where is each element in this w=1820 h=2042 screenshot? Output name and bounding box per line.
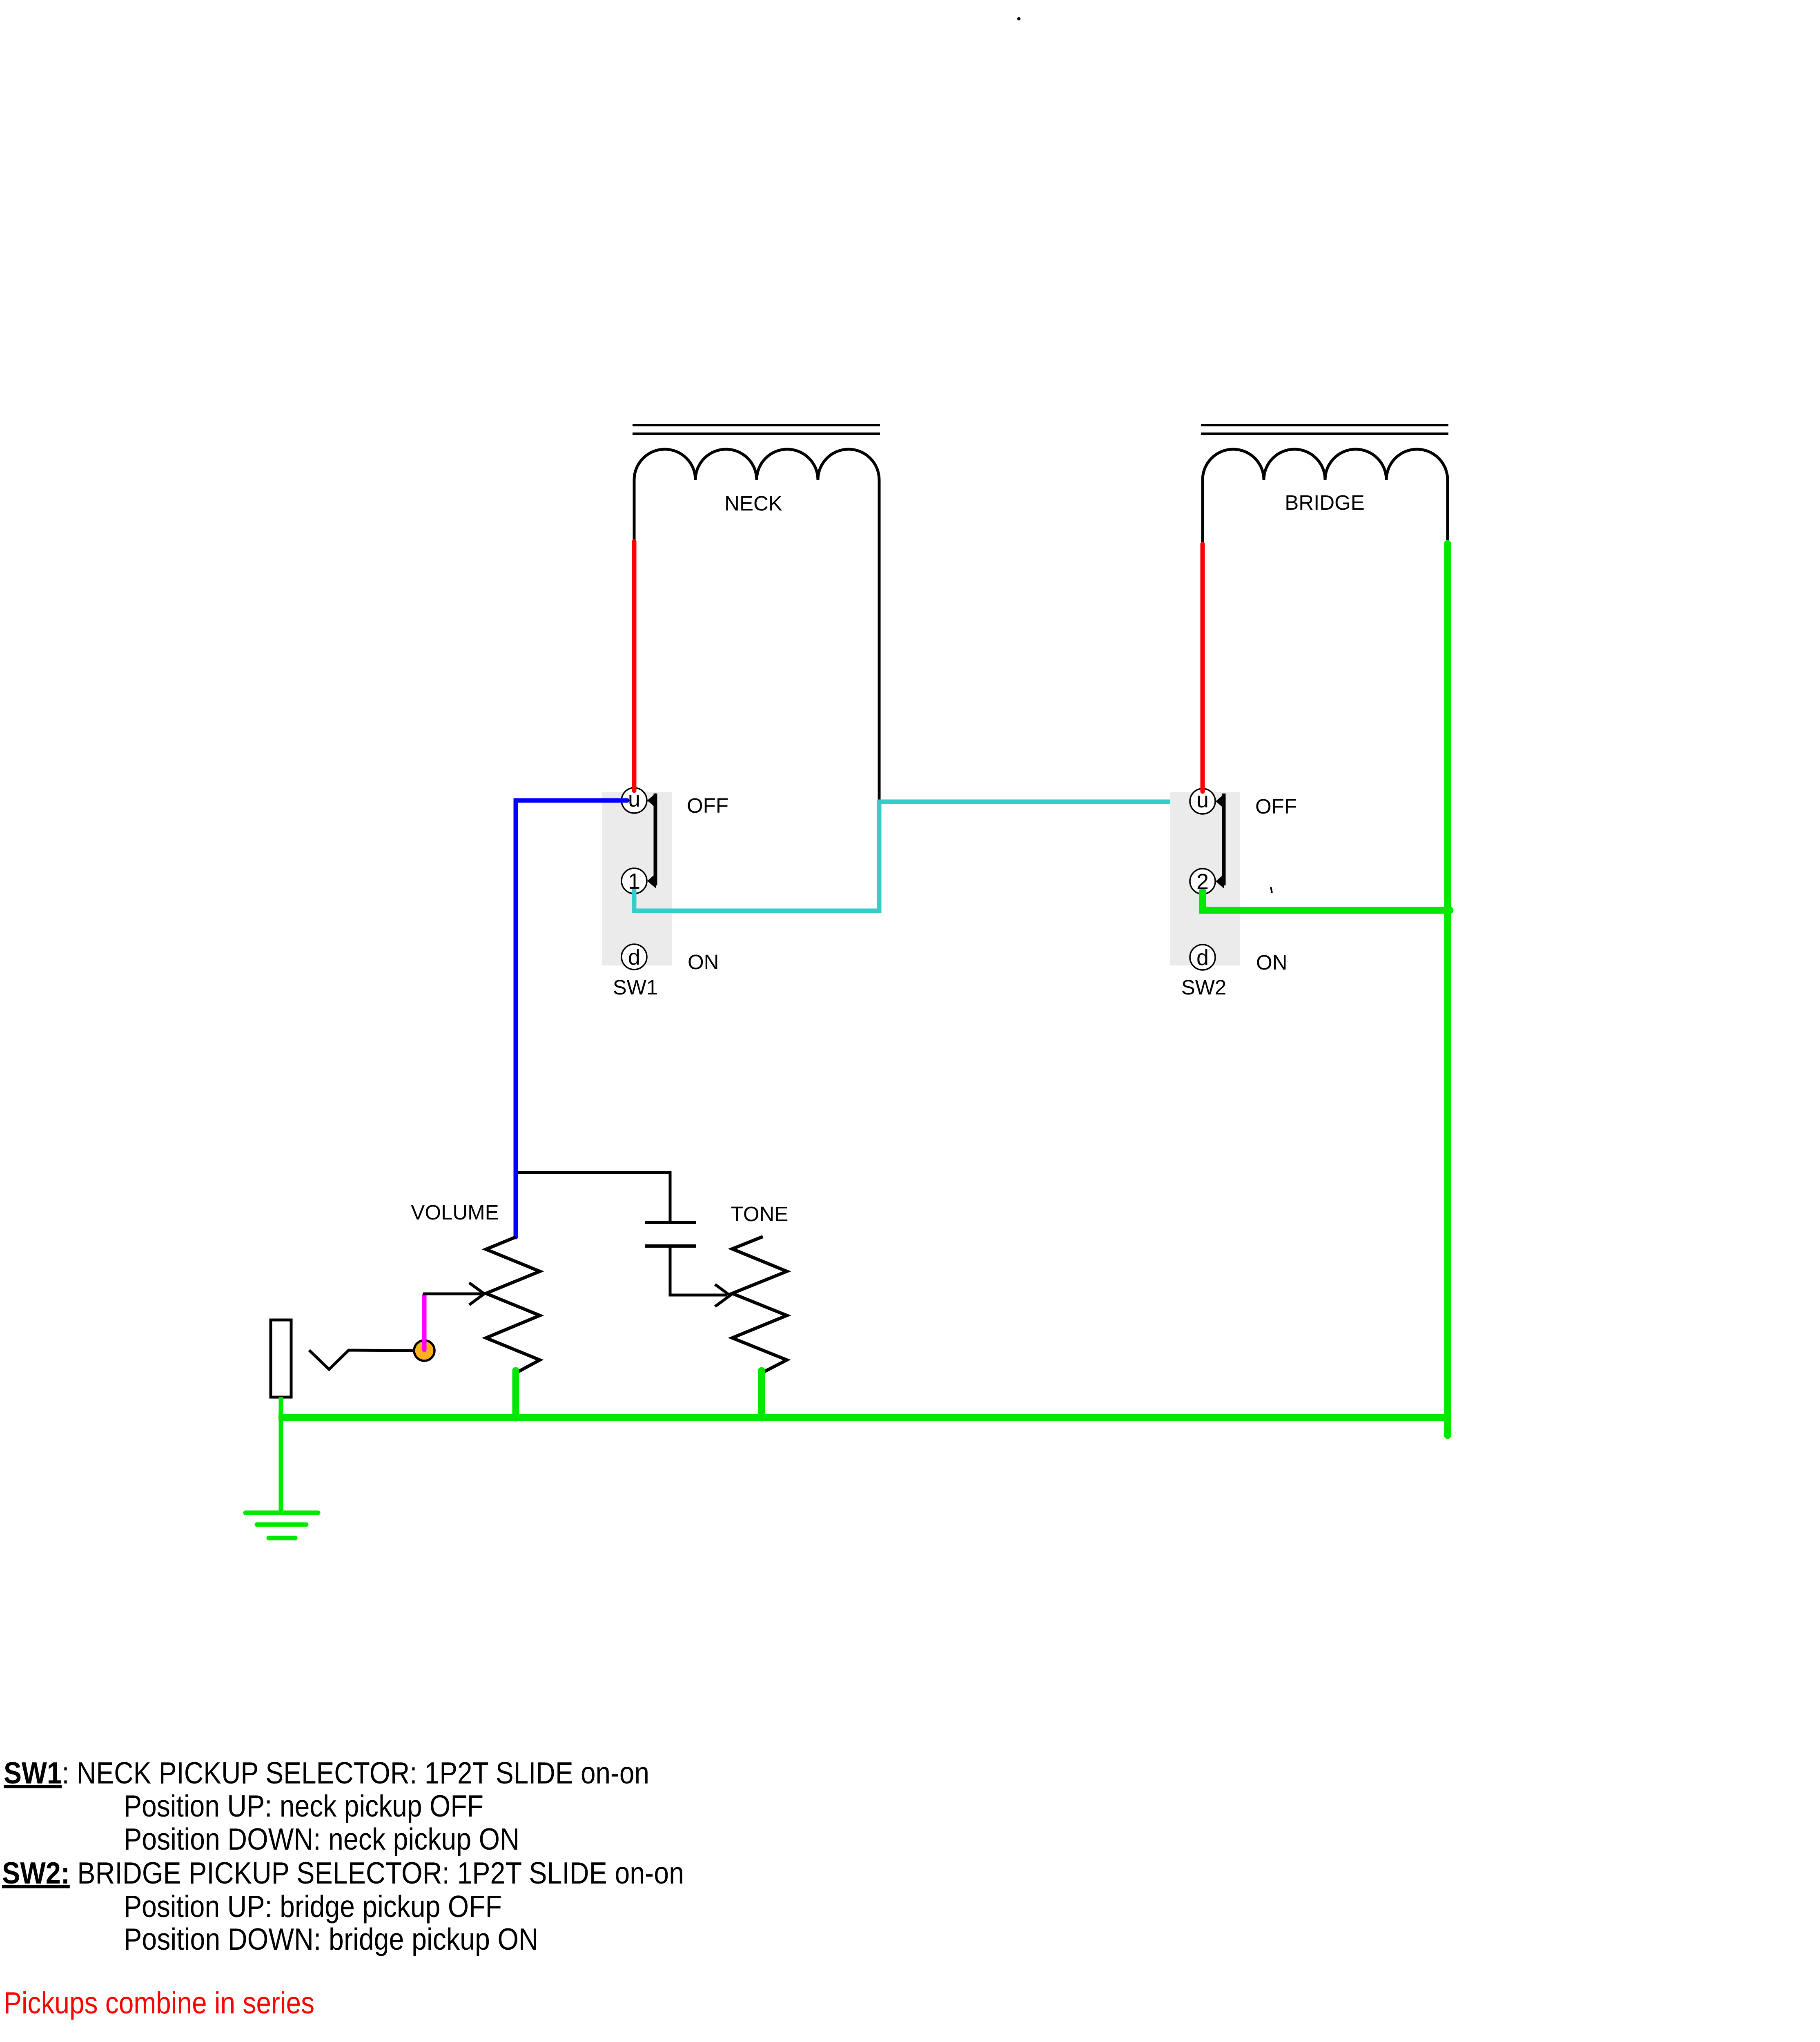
capacitor C1 top plate [645, 1221, 696, 1224]
output jack J1 body [271, 1320, 291, 1397]
svg-text:d: d [1196, 945, 1209, 970]
wire green volume bottom to bus [512, 1371, 519, 1418]
svg-text:2: 2 [1196, 869, 1209, 894]
SW2 wiper triangle at u [1216, 794, 1224, 809]
SW2 common bar [1222, 794, 1226, 885]
jack tip contact [309, 1350, 416, 1369]
SW2 wiper triangle at 2 [1216, 874, 1224, 889]
volume wiper arrowhead [469, 1283, 484, 1305]
svg-text:Pickups combine in series: Pickups combine in series [4, 1986, 314, 2020]
SW1 wiper triangle at 1 [647, 874, 656, 888]
svg-text:SW2: SW2 [1181, 976, 1227, 999]
neck pickup coil L1 [634, 449, 879, 480]
wire green tone bottom to bus [758, 1371, 765, 1418]
wire red neck hot to SW1 u [632, 542, 637, 791]
bridge pickup core (double line) [1201, 425, 1448, 434]
svg-text:ON: ON [688, 950, 719, 974]
switch SW2 body [1170, 792, 1240, 965]
svg-text:TONE: TONE [731, 1202, 789, 1226]
wire green bridge ground (right side) [1444, 544, 1451, 1436]
svg-text:u: u [1196, 788, 1209, 812]
wire green ground bus [278, 1414, 1451, 1421]
SW2 pin u circle [1190, 789, 1215, 814]
wire black volume wiper to magenta [423, 1293, 453, 1295]
svg-text:Position DOWN: neck pickup ON: Position DOWN: neck pickup ON [124, 1822, 519, 1856]
stray tick near SW2 [1271, 887, 1272, 893]
switch SW1 body [602, 792, 672, 965]
SW2 pin d circle [1190, 945, 1215, 970]
tone wiper arrowhead [715, 1284, 730, 1306]
ground symbol [245, 1513, 318, 1538]
wire black volume top to capacitor top [518, 1173, 670, 1223]
svg-text:d: d [628, 945, 640, 970]
volume wiper arrow line [423, 1293, 482, 1295]
svg-text:BRIDGE: BRIDGE [1285, 491, 1365, 514]
resistor tone pot R2 [732, 1237, 787, 1373]
wire neck coil right lead (black) [878, 480, 881, 800]
SW1 common bar [654, 794, 657, 885]
svg-text:Position UP: bridge pickup OFF: Position UP: bridge pickup OFF [124, 1889, 502, 1924]
SW1 pin d circle [622, 944, 647, 970]
svg-text:SW1: NECK PICKUP SELECTOR: 1P2: SW1: NECK PICKUP SELECTOR: 1P2T SLIDE on… [4, 1756, 649, 1790]
wire green jack sleeve to ground [279, 1397, 283, 1513]
svg-text:Position UP: neck pickup OFF: Position UP: neck pickup OFF [124, 1789, 483, 1823]
wire magenta jack tip to volume wiper [422, 1295, 427, 1350]
wire bridge coil left lead (black) [1201, 480, 1204, 545]
capacitor C1 bottom plate [645, 1244, 696, 1248]
svg-text:SW2: BRIDGE PICKUP SELECTOR: 1: SW2: BRIDGE PICKUP SELECTOR: 1P2T SLIDE … [2, 1856, 684, 1890]
svg-text:VOLUME: VOLUME [411, 1201, 499, 1224]
wire bridge coil right lead (black) [1446, 480, 1449, 545]
switch description text block [2, 1756, 684, 1956]
SW1 wiper triangle at u [647, 793, 656, 808]
svg-text:Position DOWN: bridge pickup O: Position DOWN: bridge pickup ON [124, 1922, 538, 1956]
svg-text:OFF: OFF [1255, 795, 1297, 818]
stray dot top center [1017, 17, 1020, 20]
svg-text:SW1: SW1 [613, 976, 658, 999]
svg-text:ON: ON [1256, 951, 1288, 974]
wire black capacitor to tone wiper [670, 1246, 727, 1295]
solder joint (orange dot) [414, 1340, 434, 1361]
wire neck coil left lead (black) [633, 480, 636, 542]
resistor volume pot R1 [486, 1237, 540, 1373]
neck pickup core (double line) [633, 425, 880, 434]
SW1 pin 1 circle [622, 868, 647, 894]
SW2 pin 2 circle [1190, 869, 1215, 894]
svg-text:NECK: NECK [724, 492, 782, 515]
wire blue SW1 u to volume top [516, 800, 627, 1237]
svg-text:u: u [628, 787, 640, 811]
SW1 pin u circle [622, 788, 647, 813]
svg-text:OFF: OFF [687, 794, 728, 817]
svg-text:1: 1 [628, 869, 640, 894]
wire red bridge hot to SW2 u [1201, 544, 1205, 791]
bridge pickup coil L2 [1203, 449, 1448, 480]
wire green SW2 pin2 to ground bus [1203, 891, 1450, 910]
wire cyan series link SW1 pin1 to SW2 u [634, 802, 1196, 911]
